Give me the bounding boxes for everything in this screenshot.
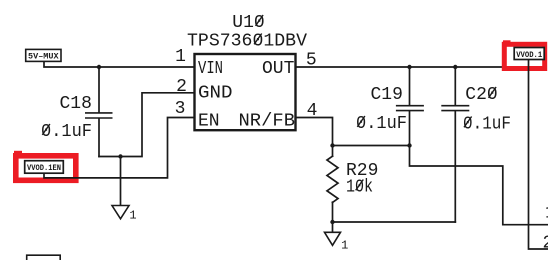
svg-text:C18: C18 <box>60 94 92 114</box>
svg-text:C20: C20 <box>465 85 497 105</box>
svg-text:U10: U10 <box>232 13 264 33</box>
svg-text:1: 1 <box>129 209 136 223</box>
svg-text:VVOD.1: VVOD.1 <box>516 50 542 60</box>
svg-text:GND: GND <box>198 84 233 104</box>
svg-text:1: 1 <box>341 239 348 253</box>
svg-text:1: 1 <box>175 47 186 67</box>
svg-text:C19: C19 <box>371 85 403 105</box>
svg-text:OUT: OUT <box>262 59 295 79</box>
svg-text:EN: EN <box>198 111 220 131</box>
svg-text:5: 5 <box>306 51 317 71</box>
svg-text:VIN: VIN <box>198 59 223 79</box>
svg-text:2: 2 <box>176 77 187 97</box>
svg-text:2: 2 <box>543 234 548 254</box>
svg-text:TPS73601DBV: TPS73601DBV <box>187 32 307 52</box>
svg-text:3: 3 <box>175 99 186 119</box>
svg-text:VVOD.1EN: VVOD.1EN <box>27 163 61 173</box>
svg-text:10k: 10k <box>346 178 373 198</box>
svg-text:NR/FB: NR/FB <box>239 111 296 131</box>
svg-text:4: 4 <box>307 101 318 121</box>
svg-text:5V–MUX: 5V–MUX <box>28 52 59 62</box>
